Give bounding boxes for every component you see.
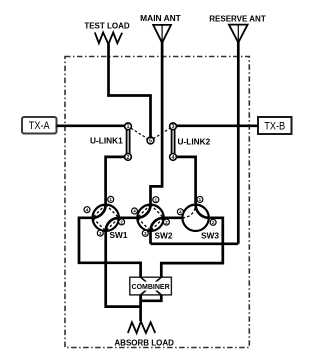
antenna RESERVE ANT	[229, 25, 248, 43]
svg-text:TX-B: TX-B	[264, 121, 285, 133]
switch SW1	[93, 205, 119, 231]
svg-text:SW3: SW3	[201, 231, 219, 241]
SW1 pin 4	[84, 207, 90, 213]
node 2	[125, 154, 132, 161]
node 5	[147, 137, 154, 144]
SW1 pin 2	[119, 219, 125, 225]
svg-text:COMBINER: COMBINER	[132, 284, 170, 291]
svg-text:TX-A: TX-A	[29, 120, 51, 132]
wire SW1 bottom to absorb node	[106, 231, 141, 307]
wire U-LINK2 port 4 to SW3 top	[176, 157, 195, 205]
enclosure dashed cabinet border	[65, 57, 249, 348]
svg-text:MAIN ANT: MAIN ANT	[140, 13, 182, 23]
svg-text:4: 4	[133, 209, 136, 214]
svg-text:1: 1	[109, 197, 112, 202]
combiner U1 box	[130, 277, 172, 295]
svg-text:3: 3	[144, 231, 147, 236]
switch SW2	[137, 205, 163, 231]
U-link bar U-LINK1 (ports 1-2)	[127, 130, 130, 154]
svg-text:3: 3	[99, 231, 102, 236]
svg-text:SW1: SW1	[110, 230, 128, 240]
svg-text:4: 4	[172, 155, 175, 161]
svg-text:4: 4	[86, 207, 89, 212]
resistor ABSORB LOAD zigzag	[128, 321, 155, 333]
node 1	[125, 123, 132, 130]
antenna MAIN ANT	[153, 25, 171, 43]
SW1 pin 1	[108, 196, 114, 202]
wire U-LINK1 port 2 to SW1 top	[106, 157, 125, 205]
wire dashed alternate link 1-5	[131, 128, 148, 139]
svg-text:1: 1	[127, 124, 130, 130]
svg-text:2: 2	[212, 220, 215, 225]
svg-text:U-LINK2: U-LINK2	[178, 136, 211, 146]
wire SW2 bottom to reserve bus	[149, 231, 152, 244]
svg-text:RESERVE ANT: RESERVE ANT	[209, 15, 266, 24]
svg-text:1: 1	[199, 197, 202, 202]
SW2 pin 4	[132, 208, 138, 214]
svg-text:4: 4	[179, 210, 182, 215]
wire dashed alternate link 5-3	[153, 128, 170, 139]
switch SW3	[182, 205, 208, 231]
wire RESERVE ANT feed to bottom bus	[237, 41, 240, 244]
node 3	[170, 123, 177, 130]
resistor TEST LOAD zigzag	[95, 32, 122, 44]
wire MAIN ANT feed to SW2 top	[151, 41, 163, 205]
wire TX-B to U-LINK2 port 3	[176, 124, 258, 127]
svg-text:TEST LOAD: TEST LOAD	[84, 21, 130, 30]
svg-text:U-LINK1: U-LINK1	[90, 136, 123, 146]
svg-text:2: 2	[127, 155, 130, 161]
svg-text:5: 5	[149, 138, 152, 144]
wire combiner bottom-right to absorb node	[141, 295, 162, 301]
wire SW1 left to combiner top-left	[79, 218, 141, 277]
SW3 pin 1	[197, 196, 203, 202]
SW3 pin 4	[177, 209, 183, 215]
wire SW3 right to combiner top-right	[161, 218, 223, 277]
SW2 pin 2	[163, 219, 169, 225]
transmitter TX-B box	[258, 117, 292, 134]
wire TEST LOAD to node 5	[109, 44, 151, 138]
svg-text:2: 2	[165, 220, 168, 225]
SW3 pin 2	[210, 219, 216, 225]
SW2 pin 3	[142, 230, 148, 236]
node 4	[170, 154, 177, 161]
SW1 pin 3	[97, 230, 103, 236]
wire reserve bus	[151, 242, 239, 245]
wire SW1 right to SW2 left	[119, 216, 137, 219]
wire SW2 right to SW3 left	[164, 216, 183, 219]
svg-text:SW2: SW2	[155, 231, 173, 241]
transmitter TX-A box	[22, 117, 57, 134]
svg-text:2: 2	[120, 220, 123, 225]
svg-text:ABSORB LOAD: ABSORB LOAD	[114, 339, 174, 348]
wire TX-A to U-LINK1 port 1	[57, 124, 125, 127]
svg-text:3: 3	[172, 124, 175, 130]
SW2 pin 1	[153, 197, 159, 203]
U-link bar U-LINK2 (ports 3-4)	[172, 130, 175, 154]
wire combiner bottom-left to ABSORB LOAD	[139, 295, 142, 321]
svg-text:1: 1	[155, 197, 158, 202]
